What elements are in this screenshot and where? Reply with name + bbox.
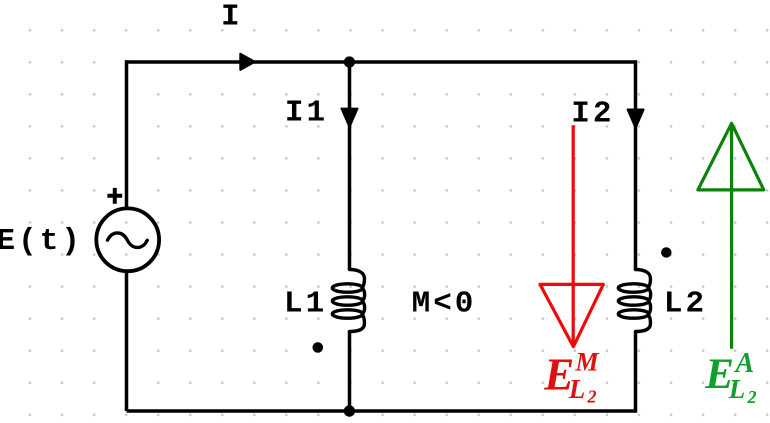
svg-text:M<0: M<0 xyxy=(412,286,477,321)
svg-text:I: I xyxy=(221,0,243,35)
svg-text:E(t): E(t) xyxy=(0,224,83,259)
polarity dot L2 xyxy=(661,247,671,257)
wire top: left corner to right corner xyxy=(127,60,636,64)
current arrow I2 (down-pointing) xyxy=(628,110,644,128)
wire left vertical lower (source bottom to bottom corner) xyxy=(125,273,129,412)
wire middle branch lower xyxy=(348,331,352,411)
red EMF arrow line xyxy=(572,125,575,346)
svg-text:2: 2 xyxy=(587,387,597,407)
inductor L1 xyxy=(332,270,364,332)
svg-text:2: 2 xyxy=(747,387,757,407)
wire right branch lower xyxy=(634,331,638,413)
svg-text:L1: L1 xyxy=(284,287,327,322)
svg-text:I2: I2 xyxy=(571,97,614,132)
AC source E(t) circle xyxy=(96,208,159,271)
label E_L2^A (green math) xyxy=(704,348,756,407)
svg-text:L: L xyxy=(568,374,586,404)
node dot bottom center xyxy=(344,405,355,416)
red EMF arrow open triangle xyxy=(540,284,603,346)
label E_L2^M (red math) xyxy=(543,347,599,406)
svg-text:L2: L2 xyxy=(664,287,707,322)
wire middle branch upper xyxy=(348,62,352,270)
svg-text:I1: I1 xyxy=(285,96,328,131)
green EMF arrow open triangle xyxy=(698,123,764,190)
wire bottom xyxy=(127,409,636,413)
polarity dot L1 xyxy=(313,342,324,353)
wire right branch upper xyxy=(634,60,638,270)
AC source sine wave xyxy=(108,233,148,248)
wire left vertical upper (corner to source top) xyxy=(125,60,129,208)
current arrow I1 (down-pointing) xyxy=(342,109,358,127)
svg-text:M: M xyxy=(575,347,600,376)
plus polarity sign xyxy=(107,188,122,204)
green EMF arrow line xyxy=(730,124,733,349)
node dot top center xyxy=(344,56,355,67)
current arrow I (right-pointing) xyxy=(240,54,255,70)
svg-text:L: L xyxy=(728,374,746,404)
inductor L2 xyxy=(618,270,650,332)
